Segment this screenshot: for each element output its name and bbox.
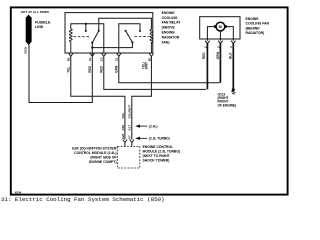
svg-text:YEL: YEL: [121, 112, 125, 118]
svg-text:WHT: WHT: [145, 62, 149, 69]
svg-text:A36: A36: [121, 125, 125, 131]
svg-text:(NEXT TO RIGHT: (NEXT TO RIGHT: [143, 154, 171, 158]
svg-text:(2.3L TURBO): (2.3L TURBO): [149, 137, 170, 141]
svg-text:B2: B2: [67, 57, 71, 61]
svg-text:YEL: YEL: [67, 67, 71, 73]
svg-text:ENGINE CONTROL: ENGINE CONTROL: [143, 145, 174, 149]
svg-text:A17: A17: [128, 125, 132, 131]
svg-text:OF ENGINE): OF ENGINE): [218, 103, 237, 107]
svg-text:COOLING FAN: COOLING FAN: [246, 22, 270, 26]
svg-text:(2.4L): (2.4L): [149, 124, 158, 128]
svg-text:FAN RELAY: FAN RELAY: [162, 21, 182, 25]
svg-text:31: Electric Cooling Fan Syste: 31: Electric Cooling Fan System Schemati…: [1, 196, 165, 202]
svg-text:ENGINE: ENGINE: [246, 17, 260, 21]
svg-text:GRN: GRN: [115, 65, 119, 73]
svg-text:LINK: LINK: [35, 25, 44, 29]
svg-text:C2: C2: [100, 57, 104, 61]
svg-text:C1: C1: [115, 57, 119, 61]
svg-text:RED: RED: [100, 65, 104, 72]
svg-text:MODULE (2.3L TURBO): MODULE (2.3L TURBO): [143, 150, 181, 154]
svg-text:COOLING: COOLING: [162, 16, 178, 20]
svg-text:FAN): FAN): [162, 40, 170, 44]
svg-text:HOT AT ALL TIMES: HOT AT ALL TIMES: [21, 10, 49, 14]
svg-text:A1: A1: [88, 57, 92, 61]
svg-text:(BEHIND: (BEHIND: [246, 26, 261, 30]
svg-text:(ABOVE: (ABOVE: [162, 26, 176, 30]
svg-text:CONTROL MODULE (2.4L): CONTROL MODULE (2.4L): [74, 151, 116, 155]
svg-text:BLK: BLK: [229, 52, 233, 59]
svg-text:GRN: GRN: [216, 51, 220, 59]
svg-text:YEL/WHT: YEL/WHT: [128, 105, 132, 119]
svg-text:RADIATOR: RADIATOR: [162, 35, 180, 39]
svg-text:EZK (DI) IGNITION SYSTEM: EZK (DI) IGNITION SYSTEM: [72, 146, 116, 150]
svg-text:RED: RED: [202, 52, 206, 59]
svg-text:A20: A20: [121, 133, 125, 139]
svg-text:SHOCK TOWER): SHOCK TOWER): [143, 159, 170, 163]
svg-text:(RIGHT SIDE OF: (RIGHT SIDE OF: [90, 155, 116, 159]
svg-text:ENGINE COMPT): ENGINE COMPT): [89, 160, 116, 164]
svg-text:ENGINE: ENGINE: [162, 31, 176, 35]
svg-text:ENGINE: ENGINE: [162, 11, 176, 15]
svg-text:M: M: [219, 25, 222, 29]
svg-text:RED: RED: [88, 65, 92, 72]
svg-text:RADIATOR): RADIATOR): [246, 31, 265, 35]
svg-text:A7: A7: [128, 135, 132, 139]
svg-text:I0744: I0744: [15, 190, 22, 194]
svg-text:RED: RED: [23, 46, 27, 53]
svg-text:FUSIBLE: FUSIBLE: [35, 21, 51, 25]
